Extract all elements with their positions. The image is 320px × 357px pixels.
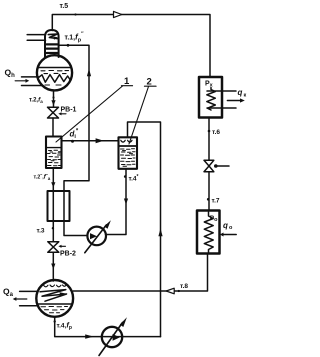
pump internal arrow (90, 233, 97, 239)
svg-text:q: q (223, 221, 228, 230)
absorber liquid level (38, 303, 72, 305)
wire vessel2 bottom to pump (106, 169, 127, 235)
label RV-1 leader arrow (61, 113, 66, 115)
wire generator bottom to RV-1 (53, 91, 55, 108)
open arrow on top line (114, 11, 122, 17)
qo line with arrow into box (223, 234, 237, 236)
generator liquid dashes (41, 71, 69, 74)
valve stem (214, 164, 218, 168)
evaporator coil zigzag (204, 212, 213, 252)
wire RV-1 to vessel 1 (52, 118, 54, 137)
node t.2 tick (52, 96, 54, 98)
condenser box Px (199, 77, 222, 118)
svg-text:q: q (238, 88, 243, 97)
qk arrow (227, 100, 240, 102)
generator vessel circle (37, 55, 72, 90)
Qh arrow (15, 80, 26, 82)
wire evaporator bottom to absorber t8 line (73, 254, 207, 292)
svg-text:РВ-1: РВ-1 (61, 107, 77, 114)
svg-text:РВ-2: РВ-2 (60, 251, 76, 258)
wire d1 vapour line vessel1 to vessel2 (62, 140, 119, 142)
wire riser from pump2 to vessel 2 top (128, 122, 161, 337)
absorber spray arcs (44, 285, 67, 287)
Qa upper water line (20, 290, 38, 292)
svg-text:к: к (244, 93, 247, 99)
Qa lower water line (20, 305, 39, 307)
Qh lower water line (22, 85, 43, 87)
vessel 1 level line (47, 147, 62, 149)
condenser upper water line (207, 90, 236, 92)
arrow down on vessel2 outlet (124, 199, 128, 205)
Qa arrow (16, 298, 27, 300)
Qh upper water line (22, 76, 39, 78)
valve RV-1 (48, 107, 59, 118)
node t5 tick (74, 13, 76, 15)
wire top line t5 to condenser (52, 15, 210, 78)
wire absorber bottom to pump 2 (55, 317, 161, 337)
node t.7 tick (207, 198, 210, 201)
absorber liquid dashes (41, 307, 68, 313)
svg-text:т.5: т.5 (60, 3, 69, 10)
neck demister zigzag (48, 34, 57, 39)
node t.8 tick (178, 290, 180, 292)
wire vessel1 bottom through HX to RV-2 and absorber (52, 169, 54, 242)
wire condenser to evaporator (208, 118, 210, 211)
arrow up on riser (158, 228, 162, 236)
node t.3 tick (52, 227, 54, 229)
vessel 2 band line (119, 145, 137, 147)
wire RV-2 to absorber (52, 252, 54, 281)
arrow right on d1 line (96, 138, 104, 143)
evaporator box Po (197, 211, 220, 254)
absorber cooling coil zigzag (40, 290, 67, 302)
leader line for label 1 (56, 86, 123, 142)
wire t.1 stub from neck right (59, 45, 89, 235)
condenser lower water line (207, 107, 236, 109)
throttle valve right (204, 160, 214, 171)
svg-text:т.6: т.6 (212, 129, 220, 136)
neck left stub upper (27, 34, 45, 36)
vessel 1 (weak solution receiver) (46, 137, 62, 169)
open arrow left on t8 line (166, 288, 174, 294)
arrow down above absorber (51, 264, 55, 270)
svg-text:т.7: т.7 (212, 198, 220, 205)
neck left stub lower (27, 39, 45, 41)
absorber vessel circle (36, 280, 73, 317)
valve RV-2 (48, 242, 59, 253)
generator heating coil (39, 75, 71, 83)
circulation pump (middle) (87, 227, 106, 246)
label RV-2 leader arrow (61, 245, 66, 247)
condenser coil zigzag (207, 88, 216, 111)
vessel 2 spray arcs (121, 140, 132, 142)
arrow right on bottom line (85, 334, 94, 338)
vessel 2 (resorber drum) (119, 137, 138, 169)
node t.4 tick (54, 320, 56, 322)
vessel 2 liquid hatch (121, 149, 136, 167)
node t.1 dot (67, 44, 70, 47)
vessel 1 liquid hatch (48, 150, 61, 166)
node t.4* tick (124, 175, 127, 178)
arrow down above HX (51, 182, 55, 187)
arrow down above RV-1 (51, 100, 55, 105)
pump diagonal arrow (85, 225, 107, 253)
generator lower dashes (45, 84, 50, 86)
generator liquid level (38, 67, 72, 69)
svg-text:т.3: т.3 (37, 228, 45, 235)
generator column dome (neck) (45, 30, 59, 57)
pump2 diagonal arrow (99, 323, 123, 356)
node dot on d1 line (71, 140, 74, 143)
arrow up on strong solution riser (87, 69, 91, 77)
svg-text:Ро: Ро (210, 215, 218, 223)
svg-text:т.8: т.8 (180, 283, 188, 290)
solution heat exchanger box (48, 191, 70, 221)
svg-text:Рх: Рх (205, 81, 214, 89)
leader line for label 2 (129, 87, 149, 145)
pump2 internal arrow (113, 334, 120, 341)
node t.6 tick (208, 130, 211, 133)
neck plates (47, 43, 58, 45)
solution pump (bottom) (102, 327, 122, 347)
